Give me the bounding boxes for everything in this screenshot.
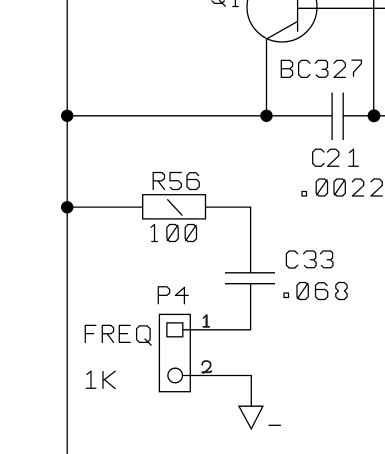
wire: main horizontal net y=115.8 from left bus to C21 left plate xyxy=(67,115,332,117)
P4 pin 1 square pad xyxy=(167,323,183,337)
wire: emitter lead down to main net xyxy=(266,39,268,116)
capacitor C33 top plate xyxy=(225,272,275,274)
wire: top-right vertical from top edge down to junction xyxy=(373,0,375,116)
label 1K xyxy=(86,371,115,388)
transistor Q1 collector diagonal xyxy=(267,21,298,39)
transistor Q1 circle xyxy=(247,0,317,42)
label .0022 xyxy=(302,179,382,196)
capacitor C21 right plate xyxy=(342,93,344,141)
label Q1 (clipped at top) xyxy=(212,0,238,7)
label P4 xyxy=(158,287,188,304)
junction dot left bus / main net xyxy=(61,110,73,122)
wire: left vertical bus x=67 full height xyxy=(66,0,68,454)
wire: C21 right plate to right edge xyxy=(343,115,385,117)
pin number 2 xyxy=(202,361,211,373)
connector P4 body box xyxy=(159,314,190,391)
capacitor C33 bottom plate xyxy=(225,283,275,285)
label BC327 xyxy=(281,60,361,77)
resistor R56 body box xyxy=(143,195,206,219)
P4 pin 2 round pad xyxy=(168,368,183,383)
ground polarity minus mark xyxy=(269,424,281,426)
junction dot left bus / R56 lead xyxy=(61,201,73,213)
label C21 xyxy=(313,149,359,166)
wire: R56 right lead, corner down to C33 xyxy=(206,207,251,273)
label 100 xyxy=(151,225,196,242)
junction dot right vertical / main net xyxy=(368,109,381,122)
ground symbol triangle xyxy=(239,406,263,429)
label R56 xyxy=(153,173,199,190)
label .068 xyxy=(284,283,347,300)
label FREQ xyxy=(85,325,151,345)
junction dot emitter / main net xyxy=(260,110,272,122)
pin number 1 xyxy=(203,315,209,327)
wire: P4 pin 2 lead right then down to ground xyxy=(183,376,252,407)
wire: transistor base lead y=8.3 to right edge xyxy=(298,7,385,9)
resistor R56 diagonal mark xyxy=(167,199,182,215)
wire: R56 left lead xyxy=(67,206,143,208)
label C33 xyxy=(286,251,333,268)
capacitor C21 left plate xyxy=(331,93,333,141)
transistor Q1 base bar xyxy=(297,0,299,32)
wire: C33 bottom to P4 pin 1 lead xyxy=(183,284,251,330)
